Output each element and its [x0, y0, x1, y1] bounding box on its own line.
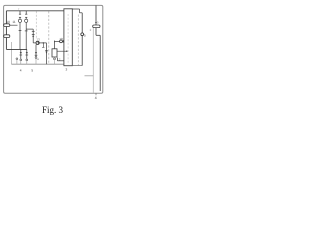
wire: lower bus: [6, 48, 27, 50]
rectifier D3 triangle: [20, 52, 22, 54]
diode D2 triangle: [35, 52, 37, 54]
tick 2 on branch: [32, 34, 35, 36]
tick on wire V1: [19, 30, 22, 32]
stub D4 to chassis: [26, 61, 28, 64]
fuse F3 (right capsule): [93, 25, 100, 28]
caption Fig. 3: [42, 105, 63, 115]
svg-text:7: 7: [18, 7, 20, 11]
block U1 (tall rectangle): [64, 9, 72, 66]
wire: U1 left arm: [57, 60, 64, 62]
internal dot of U1: [66, 51, 67, 52]
junction dot at C wire: [43, 42, 44, 43]
lamp V3: [60, 40, 63, 43]
dashed divider right: [77, 15, 79, 66]
svg-text:4: 4: [20, 69, 22, 73]
wire from X1 top: [55, 41, 60, 49]
meter M1 dot: [38, 42, 39, 43]
terminal T0: [16, 58, 18, 60]
enclosure border (outer case): [4, 5, 103, 93]
wire V3 to block: [62, 40, 64, 42]
U1 center dashed line: [67, 14, 69, 65]
lamp V4 on right drop: [81, 33, 84, 36]
wire bottom-right link: [85, 75, 94, 77]
rectifier D4 triangle: [26, 52, 28, 54]
svg-text:5: 5: [84, 34, 86, 38]
svg-text:10: 10: [6, 20, 10, 24]
hook terminal: [56, 58, 58, 61]
fuse F1 (left capsule upper): [4, 24, 10, 27]
junction tick at block: [62, 40, 64, 42]
diode D1 on branch: [32, 36, 34, 38]
fuse F2 (left capsule lower): [4, 35, 10, 38]
wire: U1 top-right elbow: [72, 9, 82, 13]
leader tick for label 4: [95, 93, 97, 95]
svg-text:3: 3: [66, 67, 68, 71]
wire: top bus: [6, 10, 64, 12]
inner box right edge: [92, 28, 94, 93]
internal tap of U1: [57, 50, 66, 52]
crystal X1 (small box): [52, 49, 57, 57]
terminal T1: [20, 59, 22, 61]
inner chassis box (light): [11, 28, 93, 93]
inner box left edge: [10, 42, 12, 64]
branch wire to x33: [26, 29, 33, 43]
svg-text:u: u: [37, 57, 39, 61]
terminal T3: [35, 57, 37, 59]
wire: lead to meter: [33, 42, 43, 44]
svg-text:4: 4: [95, 96, 97, 100]
tick above capsule: [95, 21, 97, 23]
tick on branch: [32, 30, 35, 32]
lead from F1: [10, 24, 18, 26]
meter M1: [36, 41, 39, 44]
stub below junction: [42, 43, 44, 47]
inner box bottom edge: [11, 63, 64, 65]
dashed divider left: [48, 11, 50, 64]
lamp V1 (left tube): [18, 17, 21, 49]
stub D2 to chassis: [35, 59, 37, 65]
wire: right elbow: [96, 35, 100, 91]
stub T0 to chassis: [16, 60, 18, 64]
svg-text:11: 11: [12, 20, 16, 24]
svg-text:5: 5: [31, 69, 33, 73]
svg-text:2: 2: [90, 28, 92, 32]
dashed feed line: [35, 11, 37, 39]
antenna wire from top case: [95, 5, 97, 35]
wire: chassis link under U1: [72, 65, 82, 67]
rectifier D4: [26, 49, 29, 59]
lamp V2 (right tube): [25, 17, 28, 49]
stub D3 to chassis: [20, 61, 22, 64]
tick on wire V2: [25, 30, 28, 32]
terminal T4: [54, 58, 56, 60]
wire: left drop: [5, 11, 7, 50]
lead extension: [43, 42, 46, 44]
rectifier D3 (left): [20, 49, 23, 59]
stub X1 to chassis: [54, 60, 56, 64]
svg-text:9: 9: [97, 21, 99, 25]
plug pin stub P1: [19, 11, 21, 14]
tick on stub: [42, 46, 44, 48]
zener D5 arrow: [45, 51, 47, 53]
terminal T2: [26, 59, 28, 61]
diode D2 column: [35, 45, 38, 57]
zener D5 column: [45, 43, 48, 64]
wire: right drop x82: [81, 13, 83, 66]
plug pin stub P2: [25, 11, 27, 14]
